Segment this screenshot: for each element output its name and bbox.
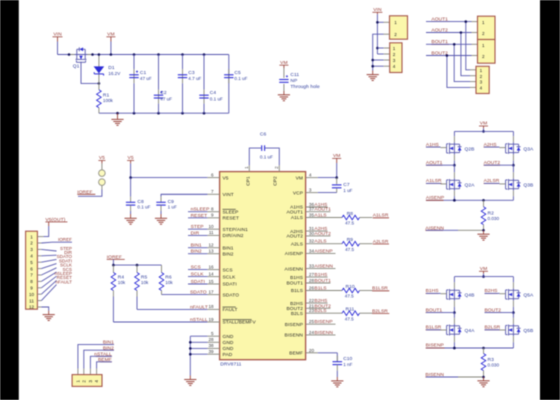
svg-text:BOUT1: BOUT1 [287, 281, 304, 287]
resistor R6 [159, 265, 164, 295]
transistor Q2B [447, 142, 462, 154]
label R5 10k [141, 274, 149, 285]
capacitor C3 [178, 55, 187, 114]
svg-text:SCS: SCS [223, 267, 233, 273]
wire 12pin row nFAULT [37, 285, 56, 301]
svg-text:47.5: 47.5 [345, 247, 354, 252]
wire GND cluster [189, 336, 192, 375]
svg-text:B1LS: B1LS [314, 286, 327, 292]
wire bottom power rail [99, 112, 229, 114]
svg-text:A1LS: A1LS [291, 215, 303, 221]
svg-text:18: 18 [208, 304, 214, 309]
wire Q4A drain [453, 313, 455, 324]
svg-text:47 uF: 47 uF [140, 76, 152, 81]
wire B2HS gate [485, 292, 506, 294]
node jumper pad 2 [99, 179, 106, 186]
wire AOUT1 bridge [426, 164, 454, 166]
svg-text:6: 6 [30, 266, 33, 271]
pin name CP2 [272, 176, 278, 186]
wire J1 pin2 to gnd [373, 34, 390, 70]
label B2LSR bridge [485, 325, 501, 331]
wire 12pin row SCS [37, 272, 56, 281]
svg-text:10: 10 [208, 224, 214, 229]
label C9 1uF [168, 199, 177, 209]
svg-text:1: 1 [394, 20, 397, 25]
svg-text:nFAULT: nFAULT [190, 304, 208, 310]
connector out 4pin [476, 66, 489, 93]
label C1 47uF [140, 70, 152, 81]
svg-text:C2: C2 [160, 90, 167, 96]
wire Q2A drain [453, 165, 455, 178]
wire 12pin row IOREF [37, 241, 72, 244]
wire 12pin row SCLK [37, 268, 56, 275]
svg-text:CP2: CP2 [272, 176, 278, 186]
svg-text:47.5: 47.5 [345, 221, 354, 226]
svg-text:9: 9 [30, 286, 33, 291]
svg-text:10: 10 [29, 292, 35, 297]
svg-text:A2LS: A2LS [314, 239, 327, 245]
label Q4A [465, 328, 476, 334]
svg-text:PAD: PAD [223, 352, 233, 358]
supply VIN header [372, 7, 382, 14]
resistor R3 [481, 348, 486, 377]
ground R2 [477, 230, 489, 240]
wire BIN2 [84, 350, 114, 374]
node B1LSR [372, 286, 389, 292]
svg-text:10k: 10k [141, 280, 149, 285]
svg-text:3: 3 [30, 247, 33, 252]
node B2LSR [372, 308, 389, 314]
pin 19 nSTALL [113, 317, 256, 326]
pin 16 SCS [188, 264, 233, 273]
svg-text:Q5B: Q5B [523, 328, 533, 334]
pin 39 PAD [190, 349, 232, 358]
node AISENP dots [453, 199, 485, 202]
svg-text:SCLK: SCLK [223, 274, 237, 280]
resistor R11 [342, 311, 372, 316]
svg-text:nSTALL: nSTALL [190, 317, 208, 323]
svg-text:1 uF: 1 uF [343, 188, 352, 193]
svg-text:SDATO: SDATO [190, 290, 207, 296]
wire C11 top lead [283, 68, 285, 78]
wire C11 bottom lead [283, 84, 285, 91]
wire 4pin pin1 stub [377, 47, 389, 49]
label SDATO 12pin [57, 254, 73, 259]
label C11 NP Through hole [290, 72, 320, 90]
resistor R4 [111, 265, 116, 322]
connector A 2pin [478, 16, 496, 39]
svg-text:8: 8 [211, 207, 214, 212]
pin name CP1 [245, 176, 251, 186]
pin 17 SDATO [162, 289, 240, 298]
capacitor C9 [156, 194, 207, 214]
svg-text:9: 9 [211, 213, 214, 218]
transistor Q1 [69, 47, 93, 62]
pin 7 VINT [161, 189, 234, 198]
label Q3B [523, 183, 533, 189]
wire BEMF down [336, 353, 338, 361]
label D1 16.2V [108, 65, 121, 76]
wire BOUT2 bridge [485, 312, 514, 314]
svg-text:FAULT: FAULT [223, 307, 238, 313]
svg-text:R11: R11 [346, 307, 355, 313]
pin 23 B2LS [291, 308, 342, 317]
pin 30 AOUT2 [287, 231, 332, 240]
label IOREF pullups [107, 254, 125, 260]
supply V5 rail [127, 155, 134, 163]
wire bridge A top rail [454, 130, 513, 132]
svg-text:3: 3 [88, 380, 93, 383]
wire Q2B drain [453, 131, 455, 142]
label Q4B [465, 293, 475, 299]
wire 4pin pin3 stub [373, 59, 390, 61]
svg-text:0.1 uF: 0.1 uF [260, 155, 273, 160]
wire Q5A drain [512, 277, 514, 289]
label IOREF jumper [77, 189, 95, 195]
svg-text:2: 2 [81, 380, 86, 383]
wire AOUT2 [426, 31, 478, 75]
svg-text:AISENN: AISENN [285, 266, 304, 272]
svg-text:SDATI: SDATI [223, 282, 237, 288]
svg-text:CP1: CP1 [245, 176, 251, 186]
pin 35 A1LS [291, 213, 342, 222]
label C3 4.7uF [188, 70, 201, 81]
wire Q4B drain [453, 277, 455, 289]
svg-text:Q2A: Q2A [465, 183, 476, 189]
node rail dots top [68, 53, 206, 56]
label SCLK 12pin [60, 263, 73, 268]
wire VM A stub [482, 128, 485, 132]
capacitor C1 [129, 55, 138, 114]
connector J2 4pin [390, 43, 402, 73]
svg-text:C1: C1 [140, 70, 147, 76]
black pillarbox left [0, 0, 19, 400]
wire 4pin pin4 stub [373, 65, 390, 67]
svg-text:B1LS: B1LS [291, 288, 303, 294]
label BIN1 [103, 340, 114, 346]
transistor Q4A [447, 324, 462, 336]
wire BOUT1 [426, 43, 478, 82]
svg-text:11: 11 [29, 298, 34, 303]
svg-text:7: 7 [211, 189, 214, 194]
svg-text:2: 2 [393, 52, 396, 57]
svg-text:RESET: RESET [223, 216, 240, 222]
svg-text:16: 16 [208, 264, 214, 269]
svg-text:Q4A: Q4A [465, 328, 476, 334]
svg-text:AOUT1: AOUT1 [314, 207, 331, 213]
supply VM C11 [279, 60, 288, 68]
wire VM to rail [110, 42, 112, 55]
wire Q3A source [512, 155, 515, 167]
svg-text:BIN2: BIN2 [191, 249, 202, 255]
svg-text:12: 12 [208, 243, 214, 248]
svg-text:47.5: 47.5 [345, 316, 354, 321]
label AOUT1 bridge [426, 160, 443, 166]
svg-text:0.030: 0.030 [488, 363, 500, 368]
pin 28 BOUT1 [287, 278, 332, 287]
svg-text:nSLEEP: nSLEEP [191, 207, 210, 213]
label nFAULT 12pin [55, 279, 72, 284]
wire B1HS gate [426, 292, 447, 294]
svg-text:1: 1 [482, 43, 485, 48]
svg-text:39: 39 [208, 349, 214, 354]
wire 4pin pin2 stub [377, 53, 389, 55]
svg-text:B2LS: B2LS [314, 308, 327, 314]
svg-text:Q5A: Q5A [523, 293, 534, 299]
svg-text:C11: C11 [290, 72, 299, 78]
pin 24 BISENN [285, 330, 336, 339]
wire A1LSR gate [426, 182, 447, 185]
svg-text:10k: 10k [118, 280, 126, 285]
wire VIN to rail [57, 42, 59, 55]
pin 9 RESET [188, 213, 239, 222]
svg-text:BIN2: BIN2 [223, 251, 234, 257]
svg-text:47 uF: 47 uF [160, 97, 172, 102]
svg-text:VINT: VINT [223, 192, 234, 198]
label Q5A [523, 293, 534, 299]
label B2HS [485, 288, 499, 294]
svg-text:Through hole: Through hole [290, 84, 320, 90]
svg-text:20: 20 [309, 348, 315, 353]
svg-text:4: 4 [309, 173, 312, 178]
wire A1HS gate [426, 146, 447, 149]
label Q1 [73, 63, 80, 69]
wire Q3B drain [512, 165, 514, 178]
svg-text:AOUT2: AOUT2 [287, 234, 304, 240]
svg-text:4: 4 [480, 86, 483, 91]
wire Q3A drain [512, 131, 514, 142]
wire Q2A source [453, 191, 456, 202]
label BOUT2 [431, 50, 449, 56]
svg-text:Q1: Q1 [73, 63, 80, 69]
label AOUT2 [431, 27, 449, 33]
svg-text:C3: C3 [188, 70, 195, 76]
label BOUT1 bridge [426, 307, 443, 313]
svg-text:STEP/AIN1: STEP/AIN1 [223, 227, 249, 233]
label B1LSR bridge [426, 325, 442, 331]
ground R3 [477, 377, 489, 387]
ground C10 [331, 377, 343, 387]
svg-text:1: 1 [30, 234, 33, 239]
ground C8 [125, 214, 137, 224]
svg-text:4.7 uF: 4.7 uF [188, 76, 201, 81]
svg-text:GND: GND [223, 340, 234, 346]
label C6 0.1uF [260, 131, 273, 159]
label Q5B [523, 328, 533, 334]
svg-text:0.030: 0.030 [488, 216, 500, 221]
svg-text:0.1 uF: 0.1 uF [234, 76, 247, 81]
pin number 1 [244, 166, 249, 169]
svg-text:DRV8711: DRV8711 [220, 362, 241, 368]
connector 12pin [26, 231, 38, 310]
label C7 1uF [343, 182, 352, 193]
pin 18 nFAULT [137, 304, 238, 313]
supply VM IC [332, 153, 341, 163]
svg-text:1: 1 [482, 20, 485, 25]
wire bridge B top rail [454, 276, 513, 278]
zener D1 [94, 66, 105, 75]
pin 14 SCLK [188, 271, 236, 280]
wire bridge B bottom rail [426, 347, 513, 349]
supply VIN [53, 32, 63, 42]
label Q3A [523, 146, 534, 152]
svg-text:BEMF: BEMF [289, 351, 303, 357]
supply VM [106, 32, 115, 42]
label V5OUT [45, 217, 67, 223]
label DRV8711 [220, 362, 241, 368]
label R2 0.030 [488, 210, 500, 221]
capacitor C2 [154, 55, 163, 114]
pin 10 STEP [188, 224, 248, 233]
svg-text:AISENP: AISENP [314, 248, 332, 254]
capacitor C10 [333, 356, 343, 377]
svg-text:VCP: VCP [293, 190, 303, 196]
svg-text:DIR: DIR [191, 230, 200, 236]
wire BOUT1 bridge [426, 312, 454, 314]
svg-text:Q4B: Q4B [465, 293, 475, 299]
capacitor C6 [262, 145, 265, 151]
svg-text:2: 2 [480, 74, 483, 79]
wire Q5A source [512, 301, 515, 314]
pin 25 BISENP [285, 319, 336, 328]
resistor R1 [97, 90, 102, 108]
label BIN2 [103, 345, 114, 351]
svg-text:C4: C4 [210, 90, 217, 96]
wire pin1 V5OUT [37, 222, 48, 237]
label R11 47.5 [345, 307, 355, 322]
wire Q1 gate [81, 62, 99, 84]
node jumper pad 1 [99, 170, 106, 177]
wire AOUT2 bridge [484, 164, 513, 166]
wire nSTALL [90, 356, 111, 374]
svg-text:STALL/BEMFV: STALL/BEMFV [223, 320, 257, 326]
label nSLEEP 12pin [55, 271, 72, 276]
svg-text:VM: VM [296, 175, 303, 181]
label A1LSR bridge [426, 178, 442, 184]
label R3 0.030 [488, 357, 500, 368]
wire BOUT2 [426, 54, 478, 87]
svg-text:5: 5 [211, 331, 214, 336]
svg-text:1: 1 [480, 68, 483, 73]
pin 15 SDATI [188, 279, 237, 288]
node gnd dots [371, 59, 374, 68]
svg-text:0.1 uF: 0.1 uF [137, 205, 150, 210]
pin 8 nSLEEP [188, 207, 238, 216]
ground 12pin [43, 311, 55, 321]
label STEP 12pin [60, 246, 72, 251]
svg-text:47.5: 47.5 [345, 294, 354, 299]
label IOREF 12pin [58, 237, 72, 242]
connector BIN 4pin [72, 375, 102, 387]
resistor R10 [342, 288, 372, 293]
svg-text:Q3B: Q3B [523, 183, 533, 189]
node BISENP dots [453, 347, 485, 350]
svg-text:RESET: RESET [191, 213, 208, 219]
ground power rail [111, 113, 123, 125]
svg-text:SCS: SCS [191, 265, 202, 271]
svg-text:1 uF: 1 uF [168, 205, 177, 210]
label R10 47.5 [345, 284, 355, 299]
label BISENN bridge [425, 372, 444, 378]
label Q2A [465, 183, 476, 189]
svg-text:10k: 10k [165, 280, 173, 285]
svg-text:B1HS: B1HS [314, 272, 328, 278]
wire CP1 pin [249, 148, 261, 172]
svg-text:12: 12 [29, 305, 35, 310]
label nSTALL [94, 351, 112, 357]
connector J1 2pin [390, 16, 408, 39]
svg-text:5: 5 [30, 260, 33, 265]
label R9 47.5 [345, 237, 354, 252]
wire Q2B source [453, 155, 456, 167]
label RESET 12pin [57, 275, 73, 280]
pin 37 AOUT1 [287, 207, 332, 216]
pin 6 V5 [131, 172, 229, 181]
svg-text:19: 19 [208, 317, 214, 322]
svg-text:C6: C6 [260, 131, 267, 137]
resistor R9 [342, 241, 372, 246]
pin 13 BIN2 [188, 249, 234, 258]
label A2LSR bridge [484, 178, 500, 184]
wire 12pin row DIR [37, 254, 56, 257]
label SCS 12pin [63, 267, 72, 272]
pin 22 B2HS [290, 298, 328, 307]
node VIN dots [376, 21, 379, 49]
svg-text:Q3A: Q3A [523, 146, 534, 152]
label R8 47.5 [345, 211, 354, 226]
pin 4 VM [296, 173, 337, 182]
svg-text:28: 28 [208, 337, 214, 342]
svg-text:A2LS: A2LS [291, 241, 303, 247]
node rail dots bottom [116, 112, 205, 115]
pin 26 B1LS [291, 286, 342, 295]
svg-text:A1LS: A1LS [314, 213, 327, 219]
svg-text:AISENP: AISENP [285, 251, 303, 257]
op-amp U1 DRV8711 body [220, 172, 306, 360]
label BEMF [98, 357, 112, 363]
svg-text:0.1 uF: 0.1 uF [210, 97, 223, 102]
svg-text:1: 1 [393, 46, 396, 51]
resistor R5 [135, 265, 140, 309]
svg-text:DIR/AIN2: DIR/AIN2 [223, 233, 244, 239]
node Q1 gate junction [98, 82, 101, 85]
svg-text:R8: R8 [347, 211, 354, 217]
svg-text:SDATI: SDATI [191, 279, 205, 285]
label AISENP bridge [426, 195, 444, 201]
svg-text:6: 6 [211, 172, 214, 177]
wire VIN pin1 stub [377, 21, 389, 23]
svg-text:2: 2 [274, 166, 279, 169]
svg-text:8: 8 [30, 279, 33, 284]
pin 27 B1HS [290, 272, 328, 281]
svg-text:B2HS: B2HS [314, 298, 328, 304]
label AISENN bridge [425, 225, 444, 231]
wire Q5B source [512, 336, 514, 348]
svg-text:B1HS: B1HS [290, 275, 303, 281]
label C4 0.1uF [210, 90, 223, 101]
svg-text:1: 1 [76, 380, 81, 383]
svg-text:4: 4 [30, 254, 33, 259]
svg-text:1 nF: 1 nF [343, 362, 352, 367]
capacitor C8 [126, 178, 135, 214]
wire D1 branch [98, 55, 100, 90]
svg-text:AOUT2: AOUT2 [314, 231, 331, 237]
svg-text:GND: GND [223, 334, 234, 340]
label C5 0.1uF [234, 70, 247, 81]
svg-text:B2HS: B2HS [290, 301, 303, 307]
svg-text:2: 2 [482, 31, 485, 36]
pin 38 GND [190, 343, 234, 352]
